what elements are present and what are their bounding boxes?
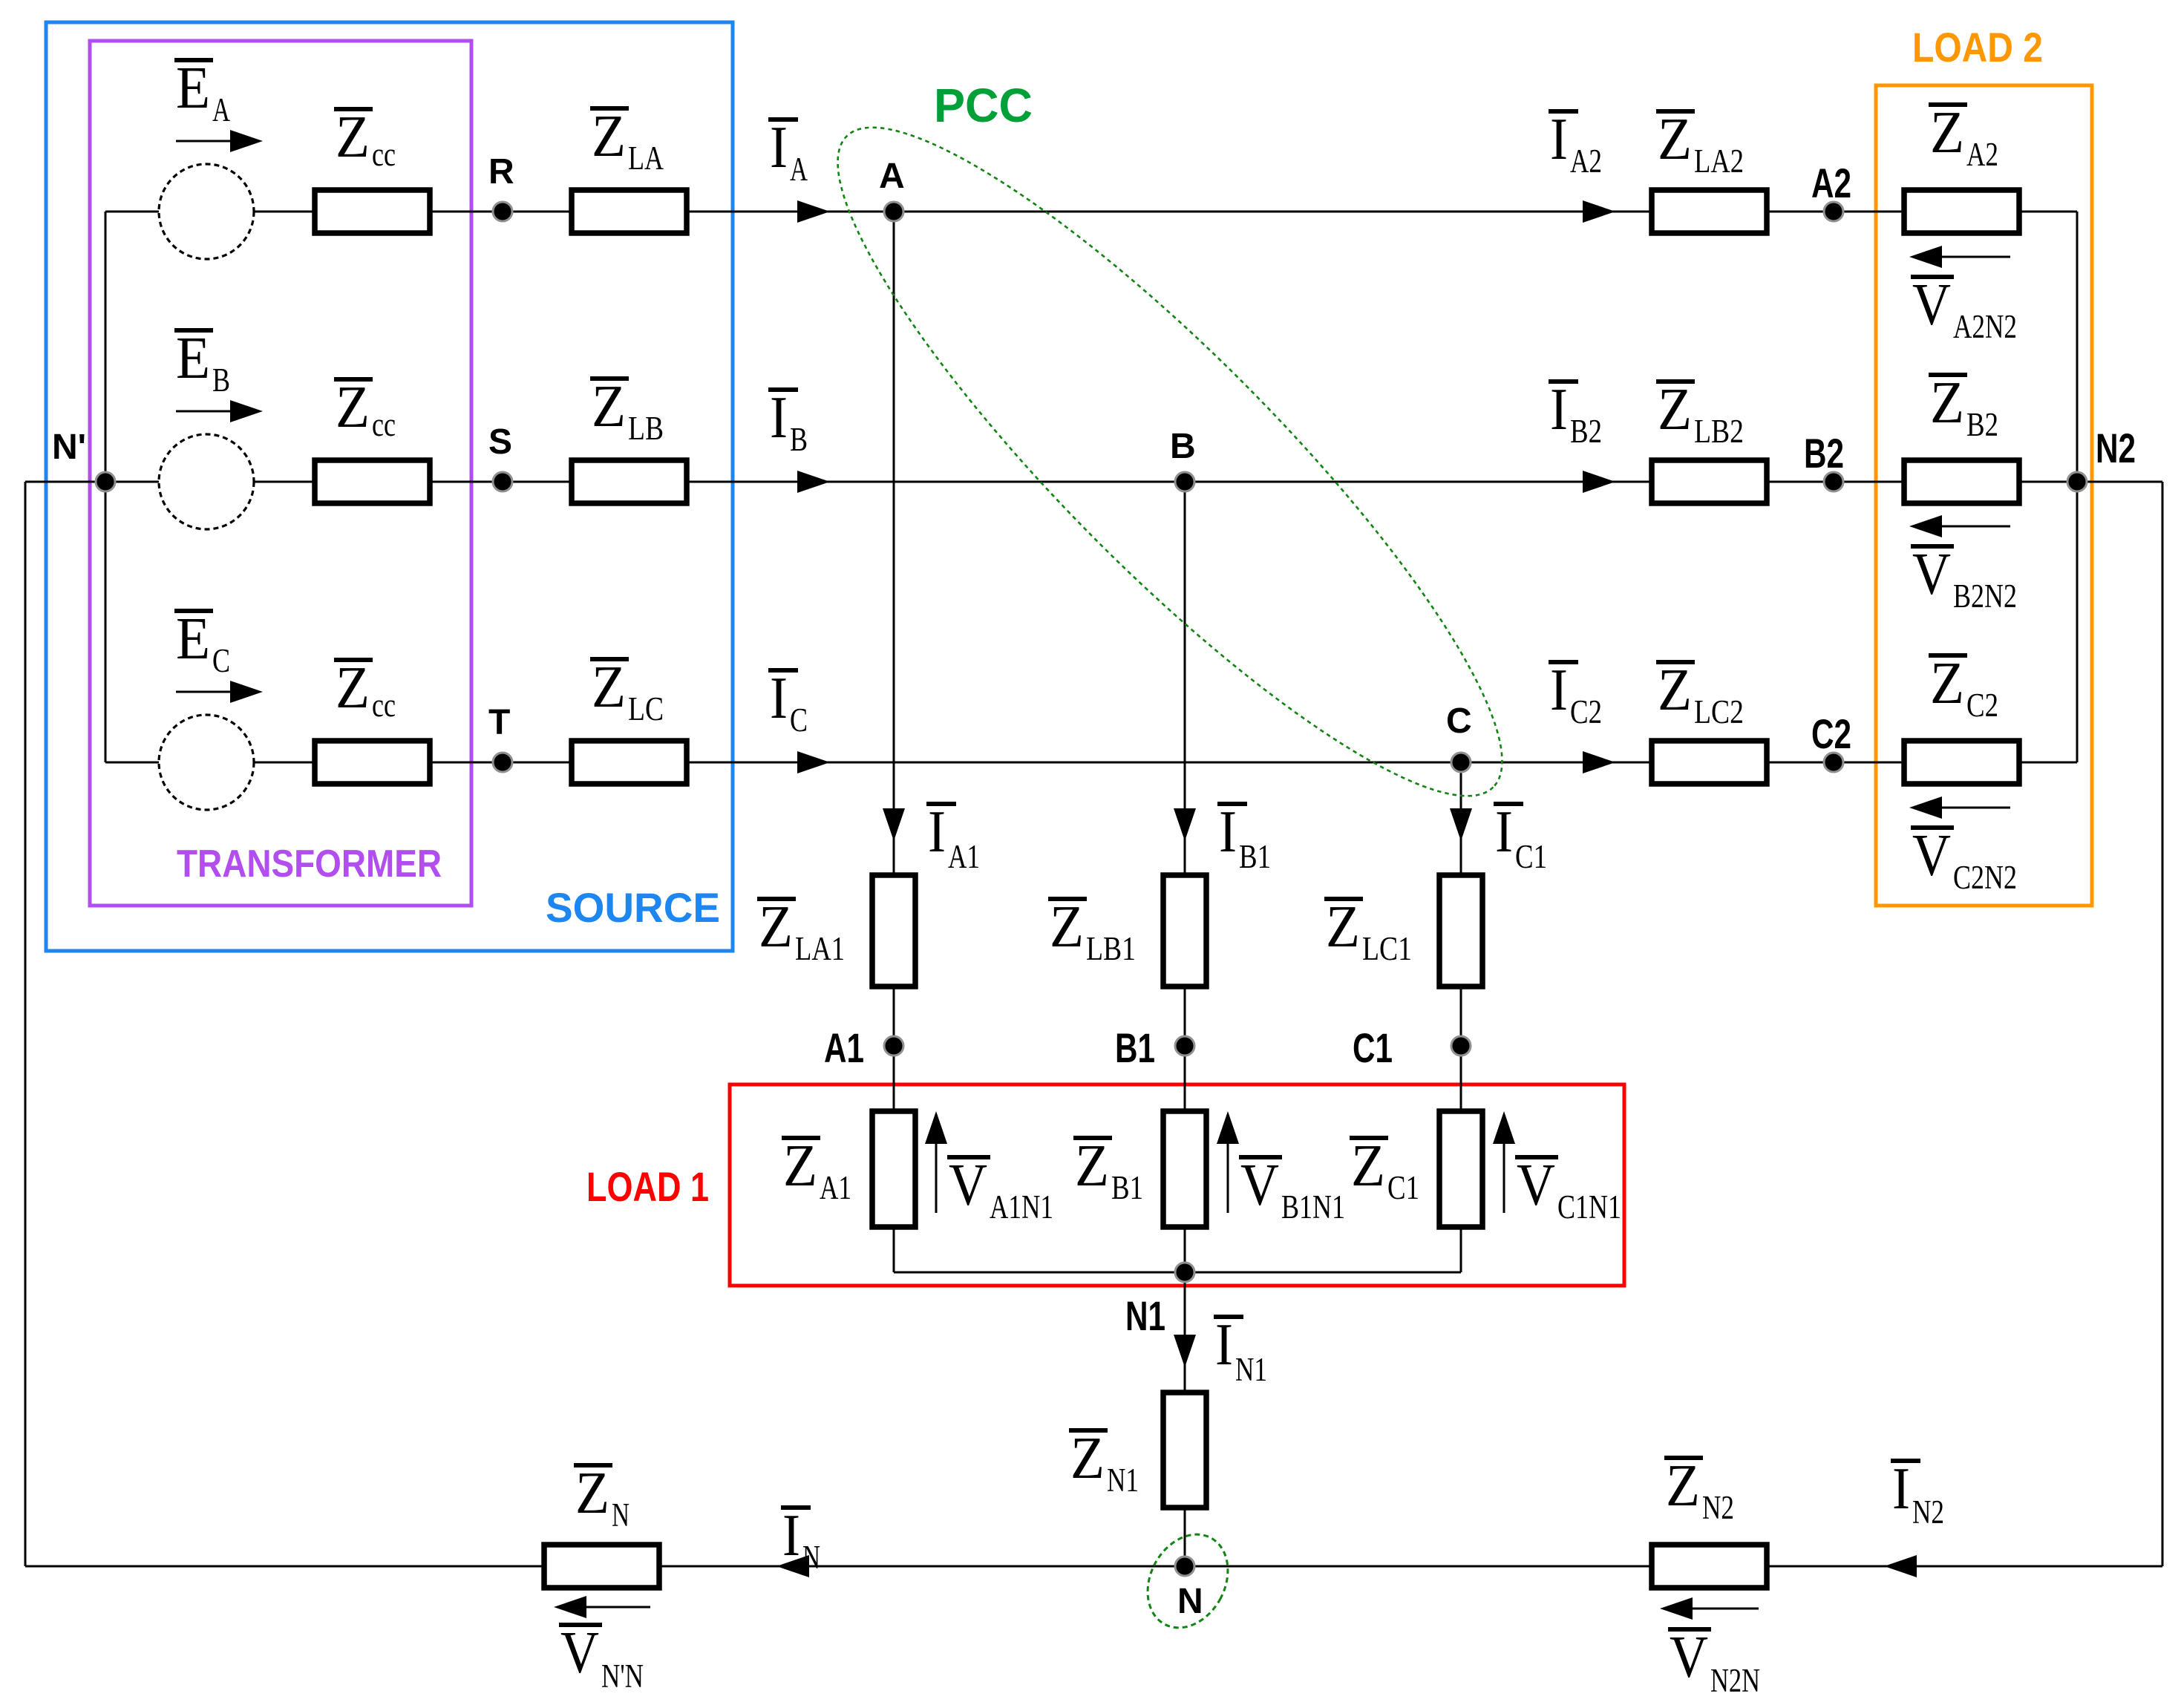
svg-text:C: C: [212, 642, 230, 679]
I_B2 current arrow: [1583, 471, 1615, 493]
svg-text:C2N2: C2N2: [1953, 859, 2017, 896]
svg-text:N2N: N2N: [1710, 1662, 1760, 1699]
svg-text:LA: LA: [628, 140, 664, 177]
Z_B2 label: [1929, 373, 1967, 377]
I_A current arrow: [797, 200, 830, 223]
resistor Z_LA2: [1652, 190, 1767, 233]
node B1: [1175, 1036, 1194, 1056]
Z_C1 label: [1350, 1136, 1388, 1140]
Z_N1 label: [1069, 1428, 1108, 1433]
svg-text:I: I: [1892, 1456, 1910, 1522]
node N: [1175, 1557, 1194, 1576]
svg-text:Z: Z: [1658, 107, 1692, 172]
resistor Z_C1: [1439, 1111, 1482, 1227]
svg-text:I: I: [1550, 107, 1568, 172]
E_A arrow: [176, 140, 230, 143]
wire load 1 star join horizontal: [894, 1272, 1461, 1274]
svg-text:I: I: [1495, 799, 1513, 865]
svg-text:Z: Z: [592, 374, 626, 439]
svg-text:R: R: [488, 152, 514, 192]
svg-text:LC2: LC2: [1694, 693, 1744, 730]
svg-text:E: E: [176, 56, 210, 121]
svg-text:Z: Z: [336, 375, 370, 440]
resistor Z_N2: [1652, 1545, 1767, 1588]
Z_N2 label: [1664, 1456, 1703, 1460]
V_B2N2 label: [1911, 544, 1954, 549]
svg-text:S: S: [488, 422, 512, 462]
svg-text:LB1: LB1: [1086, 930, 1136, 967]
resistor Z_cc phase A: [315, 190, 430, 233]
V_A2N2 label: [1911, 275, 1954, 279]
I_B2 label: [1549, 379, 1578, 384]
node B: [1175, 472, 1194, 491]
I_N1 current arrow: [1174, 1335, 1196, 1367]
E_C arrow: [176, 691, 230, 693]
node N2: [2067, 472, 2087, 491]
svg-text:C1: C1: [1353, 1024, 1393, 1071]
V_C1N1 arrow: [1503, 1139, 1505, 1213]
I_A2 current arrow: [1583, 200, 1615, 223]
resistor Z_cc phase C: [315, 741, 430, 784]
svg-text:Z: Z: [592, 104, 626, 169]
V_N2N label: [1668, 1627, 1711, 1632]
node C2: [1824, 753, 1843, 772]
LOAD 2 box (orange frame): [1876, 85, 2092, 906]
svg-text:Z: Z: [1666, 1453, 1700, 1519]
E_A label: [174, 58, 213, 62]
TRANSFORMER box (purple frame): [90, 41, 471, 906]
svg-text:C2: C2: [1811, 710, 1851, 757]
svg-text:I: I: [782, 1503, 800, 1568]
resistor Z_LB2: [1652, 460, 1767, 503]
wire bottom neutral horizontal: [25, 1565, 2162, 1568]
source E_C circle: [159, 715, 254, 810]
PCC ellipse (green dashed): [771, 60, 1570, 863]
I_N current arrow: [776, 1555, 809, 1577]
svg-text:A1N1: A1N1: [990, 1188, 1053, 1226]
Z_B1 label: [1073, 1136, 1112, 1140]
svg-text:LA2: LA2: [1694, 143, 1744, 180]
svg-text:Z: Z: [575, 1461, 609, 1526]
svg-text:N1: N1: [1235, 1351, 1267, 1388]
svg-text:N1: N1: [1107, 1462, 1139, 1499]
V_C2N2 arrow: [1942, 807, 2010, 809]
svg-text:I: I: [1215, 1312, 1233, 1378]
Z_LC1 label: [1324, 897, 1363, 901]
SOURCE box (blue frame): [46, 22, 733, 951]
I_N label: [781, 1505, 811, 1510]
Z_LA1 label: [757, 897, 796, 901]
wire phase A drop to load 1: [893, 212, 895, 1272]
svg-text:Z: Z: [1930, 370, 1964, 436]
I_N1 label: [1214, 1315, 1243, 1319]
source E_A circle: [159, 164, 254, 259]
V_A1N1 label: [947, 1155, 990, 1159]
svg-text:V: V: [560, 1620, 599, 1686]
svg-text:A: A: [879, 157, 905, 196]
svg-text:Z: Z: [1075, 1133, 1109, 1199]
svg-text:I: I: [1219, 799, 1237, 865]
I_C current arrow: [797, 751, 830, 773]
svg-text:A2N2: A2N2: [1953, 308, 2017, 345]
svg-text:N2: N2: [2096, 425, 2136, 471]
svg-text:A: A: [212, 91, 230, 128]
wire phase C horizontal: [105, 762, 2077, 764]
wire left source bus vertical: [105, 212, 107, 762]
svg-text:A2: A2: [1570, 143, 1602, 180]
svg-text:E: E: [176, 606, 210, 672]
svg-text:C: C: [790, 701, 808, 739]
node N prime: [96, 472, 115, 491]
V_N prime N arrow: [586, 1606, 650, 1609]
svg-text:V: V: [949, 1153, 987, 1218]
node A2: [1824, 202, 1843, 221]
svg-text:LA1: LA1: [795, 930, 845, 967]
resistor Z_B2: [1904, 460, 2019, 503]
node A: [884, 202, 903, 221]
svg-text:cc: cc: [372, 406, 396, 443]
svg-text:N: N: [1177, 1582, 1203, 1621]
I_C1 label: [1494, 802, 1523, 806]
Z_LC label: [590, 657, 629, 661]
svg-text:A: A: [790, 151, 808, 188]
svg-text:V: V: [1670, 1625, 1708, 1690]
V_A2N2 arrow: [1942, 256, 2010, 258]
wire neutral drop N1 to N: [1184, 1272, 1186, 1566]
svg-text:Z: Z: [1050, 894, 1084, 960]
Z_C2 label: [1929, 653, 1967, 658]
svg-text:Z: Z: [1351, 1133, 1385, 1199]
Z_A2 label: [1929, 102, 1967, 107]
svg-text:B2: B2: [1966, 406, 1998, 443]
resistor Z_LB: [572, 460, 687, 503]
wire phase A horizontal: [105, 211, 2077, 213]
V_N2N arrow: [1693, 1608, 1759, 1610]
svg-text:C1N1: C1N1: [1557, 1188, 1621, 1226]
node B2: [1824, 472, 1843, 491]
svg-text:I: I: [1550, 377, 1568, 442]
I_N2 current arrow: [1884, 1555, 1917, 1577]
wire left neutral return vertical: [24, 482, 27, 1566]
resistor Z_A1: [872, 1111, 915, 1227]
wire phase B drop to load 1: [1184, 482, 1186, 1272]
svg-text:B1: B1: [1111, 1169, 1143, 1206]
svg-text:N: N: [612, 1496, 630, 1534]
node T: [493, 753, 512, 772]
V_C1N1 label: [1515, 1155, 1558, 1159]
svg-text:A1: A1: [824, 1024, 864, 1071]
Z_LC2 label: [1656, 660, 1695, 664]
svg-text:LOAD 1: LOAD 1: [586, 1163, 709, 1210]
node C1: [1451, 1036, 1471, 1056]
svg-text:B2N2: B2N2: [1953, 577, 2017, 615]
node S: [493, 472, 512, 491]
svg-text:A2: A2: [1966, 136, 1998, 173]
svg-text:B2: B2: [1570, 413, 1602, 450]
Z_cc label phase B: [334, 377, 373, 382]
LOAD 1 box (red frame): [730, 1084, 1624, 1286]
I_C label: [768, 668, 798, 673]
I_C2 current arrow: [1583, 751, 1615, 773]
svg-text:Z: Z: [1658, 658, 1692, 723]
V_B1N1 arrow: [1227, 1139, 1229, 1213]
svg-text:E: E: [176, 326, 210, 391]
svg-text:V: V: [1912, 272, 1951, 338]
svg-text:cc: cc: [372, 687, 396, 724]
Z_LA2 label: [1656, 109, 1695, 114]
node N1: [1175, 1263, 1194, 1282]
resistor Z_cc phase B: [315, 460, 430, 503]
resistor Z_LA1: [872, 875, 915, 986]
resistor Z_N: [544, 1545, 659, 1588]
Z_A1 label: [782, 1136, 820, 1140]
svg-text:B1: B1: [1115, 1024, 1155, 1071]
svg-text:B1: B1: [1239, 838, 1271, 875]
resistor Z_C2: [1904, 741, 2019, 784]
svg-text:Z: Z: [1070, 1426, 1105, 1491]
node R: [493, 202, 512, 221]
svg-text:I: I: [928, 799, 946, 865]
svg-text:C1: C1: [1515, 838, 1547, 875]
svg-text:V: V: [1517, 1153, 1555, 1218]
svg-text:I: I: [770, 666, 788, 731]
I_A2 label: [1549, 109, 1578, 114]
Z_LB label: [590, 376, 629, 381]
resistor Z_A2: [1904, 190, 2019, 233]
V_B2N2 arrow: [1942, 526, 2010, 528]
svg-text:A2: A2: [1811, 160, 1851, 206]
svg-text:N1: N1: [1125, 1292, 1165, 1339]
svg-text:Z: Z: [1326, 894, 1360, 960]
wire right inner vertical (load 2 common): [2076, 212, 2079, 762]
I_A1 current arrow: [883, 808, 905, 841]
svg-text:I: I: [1550, 658, 1568, 723]
svg-text:Z: Z: [336, 105, 370, 170]
svg-text:TRANSFORMER: TRANSFORMER: [177, 842, 442, 886]
V_C2N2 label: [1911, 825, 1954, 830]
resistor Z_LC: [572, 741, 687, 784]
svg-text:C2: C2: [1966, 687, 1998, 724]
I_B current arrow: [797, 471, 830, 493]
svg-text:LB: LB: [628, 410, 664, 447]
Z_LB1 label: [1048, 897, 1087, 901]
I_B1 label: [1217, 802, 1247, 806]
I_C2 label: [1549, 660, 1578, 664]
svg-text:Z: Z: [1930, 100, 1964, 166]
svg-text:T: T: [488, 703, 510, 742]
Z_cc label phase C: [334, 658, 373, 662]
svg-text:LC1: LC1: [1362, 930, 1412, 967]
Z_N label: [574, 1463, 612, 1467]
svg-text:Z: Z: [336, 655, 370, 721]
node N ellipse (green dashed): [1132, 1520, 1243, 1641]
I_C1 current arrow: [1450, 808, 1472, 841]
Z_LB2 label: [1656, 379, 1695, 384]
resistor Z_LC1: [1439, 875, 1482, 986]
resistor Z_N1: [1163, 1393, 1206, 1508]
svg-text:B: B: [790, 421, 808, 458]
svg-text:N: N: [802, 1539, 820, 1576]
svg-text:B: B: [1170, 427, 1196, 466]
svg-text:N'N: N'N: [601, 1658, 644, 1695]
node A1: [884, 1036, 903, 1056]
svg-text:N2: N2: [1912, 1493, 1944, 1531]
svg-text:V: V: [1912, 542, 1951, 607]
I_A label: [768, 117, 798, 122]
V_A1N1 arrow: [935, 1139, 938, 1213]
E_B label: [174, 328, 213, 333]
svg-text:Z: Z: [1930, 651, 1964, 716]
V_N prime N label: [559, 1623, 602, 1627]
E_C label: [174, 609, 213, 613]
svg-text:cc: cc: [372, 136, 396, 173]
resistor Z_LA: [572, 190, 687, 233]
svg-text:LOAD 2: LOAD 2: [1912, 24, 2043, 71]
svg-text:PCC: PCC: [934, 79, 1033, 132]
E_B arrow: [176, 410, 230, 413]
svg-text:B2: B2: [1804, 430, 1844, 477]
wire phase B horizontal (includes neutral link from N prime): [25, 481, 2162, 483]
resistor Z_LB1: [1163, 875, 1206, 986]
svg-text:LB2: LB2: [1694, 413, 1744, 450]
svg-text:C1: C1: [1387, 1169, 1419, 1206]
I_A1 label: [926, 802, 956, 806]
Z_LA label: [590, 106, 629, 111]
svg-text:I: I: [770, 385, 788, 451]
svg-text:N2: N2: [1702, 1489, 1734, 1526]
node C: [1451, 753, 1471, 772]
V_B1N1 label: [1239, 1155, 1282, 1159]
svg-text:LC: LC: [628, 690, 664, 727]
svg-text:V: V: [1240, 1153, 1279, 1218]
resistor Z_B1: [1163, 1111, 1206, 1227]
svg-text:Z: Z: [1658, 377, 1692, 442]
wire phase C drop to load 1: [1460, 762, 1462, 1272]
source E_B circle: [159, 434, 254, 529]
svg-text:Z: Z: [759, 894, 793, 960]
svg-text:Z: Z: [783, 1133, 817, 1199]
wire right outer vertical (N2 to bottom): [2162, 482, 2164, 1566]
resistor Z_LC2: [1652, 741, 1767, 784]
svg-text:SOURCE: SOURCE: [546, 884, 720, 931]
svg-text:Z: Z: [592, 655, 626, 720]
svg-text:C2: C2: [1570, 693, 1602, 730]
svg-text:N': N': [52, 428, 86, 467]
svg-text:I: I: [770, 115, 788, 180]
svg-text:B1N1: B1N1: [1281, 1188, 1345, 1226]
Z_cc label phase A: [334, 107, 373, 111]
I_B1 current arrow: [1174, 808, 1196, 841]
svg-text:A1: A1: [948, 838, 980, 875]
I_B label: [768, 387, 798, 392]
svg-text:C: C: [1446, 701, 1472, 741]
I_N2 label: [1891, 1459, 1920, 1463]
svg-text:A1: A1: [820, 1169, 851, 1206]
svg-text:V: V: [1912, 823, 1951, 889]
svg-text:B: B: [212, 361, 230, 399]
